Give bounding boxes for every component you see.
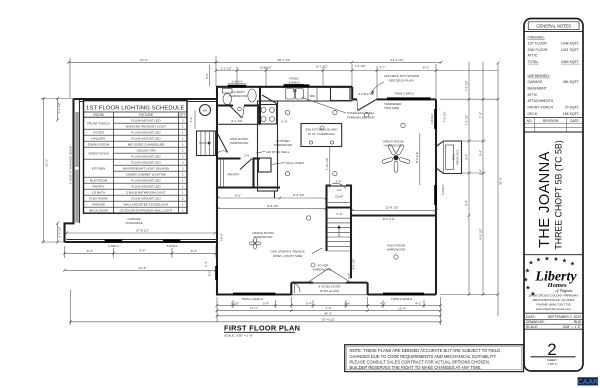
fireplace bump xyxy=(436,141,462,174)
top-left small rotated dim xyxy=(209,65,211,86)
svg-text:2ND FLOOR: 2ND FLOOR xyxy=(528,48,549,52)
svg-text:1: 1 xyxy=(182,136,184,140)
foyer door wall xyxy=(291,282,313,284)
house top wall A (kitchen/bath) xyxy=(216,86,352,88)
dim line garage top 21'-4" xyxy=(69,61,217,63)
svg-text:DINING ROOM: DINING ROOM xyxy=(88,142,110,146)
dim row2 left segments xyxy=(216,70,352,72)
svg-text:484 SQFT.: 484 SQFT. xyxy=(563,80,580,84)
corner cabinet diagonal xyxy=(262,95,278,104)
svg-text:21'-4 1/2": 21'-4 1/2" xyxy=(390,58,403,62)
svg-text:THIS SIDE: THIS SIDE xyxy=(384,106,399,110)
bath door swing xyxy=(230,106,242,118)
svg-text:2 BULB BATHROOM LIGHT: 2 BULB BATHROOM LIGHT xyxy=(126,190,165,194)
svg-text:GENERAL NOTES: GENERAL NOTES xyxy=(536,23,571,28)
svg-text:CONCRETE: CONCRETE xyxy=(125,221,142,225)
svg-text:1: 1 xyxy=(182,124,184,128)
svg-text:3'-0": 3'-0" xyxy=(335,180,341,184)
garage bottom wall xyxy=(65,241,218,243)
svg-text:- SEE DECK PLAN: - SEE DECK PLAN xyxy=(387,79,413,83)
porch door swing small xyxy=(295,284,301,294)
svg-text:1'-4": 1'-4" xyxy=(204,261,208,267)
svg-text:8'-1 1/2": 8'-1 1/2" xyxy=(231,119,242,123)
house bottom wall right segment xyxy=(368,293,436,295)
right wall window upper xyxy=(434,109,437,129)
bottom window TWIN left xyxy=(233,293,275,296)
svg-text:DECK: DECK xyxy=(528,112,538,116)
kitchen west cabinet column xyxy=(258,101,278,191)
svg-text:5'-4": 5'-4" xyxy=(464,200,468,206)
toilet xyxy=(223,89,233,94)
svg-text:FRONT PORCH: FRONT PORCH xyxy=(528,106,554,110)
svg-text:OAK STAIRS 5 TREADS: OAK STAIRS 5 TREADS xyxy=(270,250,304,254)
right dim line middle xyxy=(482,62,484,295)
svg-text:★: ★ xyxy=(525,268,531,275)
svg-text:2X4 DECK NOT SHOWN: 2X4 DECK NOT SHOWN xyxy=(384,74,419,78)
date row xyxy=(524,312,583,314)
svg-text:THREE CHOPT 5B (TC 5B): THREE CHOPT 5B (TC 5B) xyxy=(554,140,564,249)
svg-text:8'-0 C.G.: 8'-0 C.G. xyxy=(383,217,395,221)
flex room top wall xyxy=(351,214,436,216)
svg-text:9'-7": 9'-7" xyxy=(379,65,385,69)
svg-text:1'-1 1/2": 1'-1 1/2" xyxy=(57,102,61,113)
svg-text:GREAT ROOM: GREAT ROOM xyxy=(88,151,109,155)
coat closet xyxy=(327,186,332,208)
svg-text:3/16" = 1'-0": 3/16" = 1'-0" xyxy=(563,325,582,329)
svg-text:2: 2 xyxy=(547,340,556,359)
svg-text:HARDWOOD: HARDWOOD xyxy=(229,94,248,98)
garage bottom windows xyxy=(105,240,123,243)
svg-text:2: 2 xyxy=(182,166,184,170)
svg-text:CAAR: CAAR xyxy=(577,377,599,386)
kitchen ceiling lights xyxy=(285,110,289,114)
basement steps xyxy=(197,131,216,156)
svg-text:GARAGE: GARAGE xyxy=(92,202,105,206)
stairs xyxy=(325,208,327,252)
svg-text:FLEX ROOM: FLEX ROOM xyxy=(89,196,108,200)
svg-text:1: 1 xyxy=(182,130,184,134)
table data rows xyxy=(84,118,188,212)
svg-text:8'-8 1/2": 8'-8 1/2" xyxy=(293,193,304,197)
title block outer border xyxy=(524,19,583,372)
svg-text:2: 2 xyxy=(182,118,184,122)
table frame xyxy=(84,101,188,214)
farmhouse sink xyxy=(286,89,295,100)
dim line house top 28'-7 1/2" xyxy=(216,61,352,63)
svg-text:HARDWOOD: HARDWOOD xyxy=(274,143,293,147)
svg-text:6'-4": 6'-4" xyxy=(87,249,93,253)
svg-text:DATE: DATE xyxy=(570,119,578,123)
svg-text:★: ★ xyxy=(562,258,568,265)
dim line garage left inner segments xyxy=(57,99,59,121)
svg-text:SCALE: 3/16" = 1'-0": SCALE: 3/16" = 1'-0" xyxy=(224,334,253,338)
bottom window TWIN right xyxy=(383,293,424,296)
garage bottom dim row 6'-4 / 9'-4 / 6'-4 xyxy=(65,252,217,254)
svg-text:8'-8 1/2": 8'-8 1/2" xyxy=(260,65,271,69)
svg-text:3-046-0: 3-046-0 xyxy=(108,244,119,248)
svg-text:3-046-0: 3-046-0 xyxy=(167,244,178,248)
svg-text:FINISHED:: FINISHED: xyxy=(528,35,545,39)
svg-text:ROOM: ROOM xyxy=(93,113,104,117)
svg-text:2- 9'X7'-0" GARAGE DOOR: 2- 9'X7'-0" GARAGE DOOR xyxy=(69,145,73,184)
svg-text:WALL MOUNTED FLOODLIGHT: WALL MOUNTED FLOODLIGHT xyxy=(123,202,168,206)
svg-text:CHANGES DUE TO CODE REQUIREMEN: CHANGES DUE TO CODE REQUIREMENTS AND MEC… xyxy=(350,354,497,359)
svg-text:KITCHEN: KITCHEN xyxy=(92,166,106,170)
svg-text:4'-1": 4'-1" xyxy=(415,302,421,306)
svg-text:1: 1 xyxy=(182,142,184,146)
svg-text:1: 1 xyxy=(182,148,184,152)
great room lights xyxy=(364,113,368,117)
pantry door swing xyxy=(240,159,252,170)
house left wall window (lower) xyxy=(215,266,218,280)
bottom dim row A xyxy=(217,304,441,306)
svg-text:THE JOANNA: THE JOANNA xyxy=(537,151,553,248)
house bottom wall left segment xyxy=(216,293,291,295)
svg-text:7'-3 1/2": 7'-3 1/2" xyxy=(464,80,468,91)
svg-text:2'-3 1/2": 2'-3 1/2" xyxy=(220,66,231,70)
svg-text:NOTE: THESE PLANS ARE DEEMED A: NOTE: THESE PLANS ARE DEEMED ACCURATE BU… xyxy=(350,348,501,353)
svg-text:FIXTURE: FIXTURE xyxy=(139,113,154,117)
svg-text:27'-8 1/2": 27'-8 1/2" xyxy=(136,229,149,233)
garage left wall outer xyxy=(65,99,74,242)
svg-text:6'-2": 6'-2" xyxy=(423,65,429,69)
svg-text:DRAWN BY:: DRAWN BY: xyxy=(526,320,545,324)
svg-text:FLUSH MOUNT LED: FLUSH MOUNT LED xyxy=(131,196,161,200)
svg-text:4'-0": 4'-0" xyxy=(205,73,209,79)
svg-text:10430 CROSS COLONY PARKWAY: 10430 CROSS COLONY PARKWAY xyxy=(528,294,578,298)
pantry east wall xyxy=(252,159,254,188)
svg-text:5'-10": 5'-10" xyxy=(231,301,239,305)
svg-text:UNDER CABINET LIGHTING: UNDER CABINET LIGHTING xyxy=(126,172,167,176)
svg-text:OPEN - RIGHT SIDE: OPEN - RIGHT SIDE xyxy=(273,254,302,258)
foyer recess west wall xyxy=(290,283,292,295)
svg-text:8'-0 C.G.: 8'-0 C.G. xyxy=(415,151,419,163)
cabinet dividers xyxy=(316,88,318,101)
svg-text:1/2 BATH: 1/2 BATH xyxy=(92,190,105,194)
foyer recess east wall xyxy=(367,283,369,295)
general notes header box xyxy=(528,22,579,30)
pantry shelves xyxy=(220,160,222,188)
svg-text:7'-3 1/2": 7'-3 1/2" xyxy=(464,114,468,125)
kitchen-coat dim line 7'-10 1/2" xyxy=(329,147,331,188)
svg-text:GARAGE: GARAGE xyxy=(528,80,544,84)
kitchen top counter edge xyxy=(260,99,352,101)
svg-text:5'-4": 5'-4" xyxy=(306,302,312,306)
svg-text:BASEMENT: BASEMENT xyxy=(528,87,548,91)
svg-text:SCALE:: SCALE: xyxy=(526,325,538,329)
svg-text:1: 1 xyxy=(182,208,184,212)
half bath bottom wall xyxy=(217,104,233,106)
svg-text:7'-3 1/2": 7'-3 1/2" xyxy=(443,111,447,122)
svg-text:FLUSH MOUNT LED: FLUSH MOUNT LED xyxy=(131,130,161,134)
svg-text:7'-10 1/2": 7'-10 1/2" xyxy=(325,157,329,170)
svg-text:HARDWOOD: HARDWOOD xyxy=(387,248,406,252)
svg-text:FARMHOUSE SINK: FARMHOUSE SINK xyxy=(347,115,376,119)
window TWIN 2-846-2 xyxy=(387,97,431,100)
svg-text:FLUSH MOUNT LED: FLUSH MOUNT LED xyxy=(131,136,161,140)
svg-text:www.libertyhomesva.com: www.libertyhomesva.com xyxy=(536,307,571,311)
dim line garage left 21'-0" xyxy=(43,99,45,243)
svg-text:9'-4": 9'-4" xyxy=(139,249,145,253)
back door swing xyxy=(358,99,377,110)
bath sink xyxy=(248,89,256,102)
svg-text:70 SQFT.: 70 SQFT. xyxy=(565,106,580,110)
dimension tick marks xyxy=(42,61,499,323)
svg-text:★: ★ xyxy=(553,256,559,263)
svg-text:FRONT PORCH: FRONT PORCH xyxy=(87,121,110,125)
svg-text:1: 1 xyxy=(182,172,184,176)
garage interior width dim 27'-8 1/2" xyxy=(67,232,216,234)
svg-text:QTY: QTY xyxy=(179,113,187,117)
svg-text:8'-6": 8'-6" xyxy=(235,193,241,197)
svg-text:DATE:: DATE: xyxy=(526,315,536,319)
window FIXED 4-046-0 xyxy=(284,84,310,87)
svg-text:1: 1 xyxy=(182,202,184,206)
svg-text:1: 1 xyxy=(182,178,184,182)
svg-text:TWIN 2-2046-0: TWIN 2-2046-0 xyxy=(241,297,262,301)
svg-text:1-843-0: 1-843-0 xyxy=(232,80,243,84)
svg-text:TOTAL: TOTAL xyxy=(528,60,539,64)
svg-text:2-4: 2-4 xyxy=(337,188,342,192)
kitchen island xyxy=(301,124,342,147)
svg-text:★: ★ xyxy=(570,261,576,268)
svg-text:3: 3 xyxy=(182,160,184,164)
svg-text:57'-4 1/2": 57'-4 1/2" xyxy=(322,317,335,321)
svg-text:7'-0": 7'-0" xyxy=(325,306,331,310)
svg-text:3'-4": 3'-4" xyxy=(464,154,468,160)
svg-text:15'-6": 15'-6" xyxy=(220,233,224,241)
svg-text:W 3/4 GLASS: W 3/4 GLASS xyxy=(320,289,339,293)
svg-text:ATTACHMENTS: ATTACHMENTS xyxy=(528,99,554,103)
svg-text:HARDWOOD: HARDWOOD xyxy=(254,235,273,239)
pantry bottom wall xyxy=(217,186,280,188)
svg-text:34'-0": 34'-0" xyxy=(324,312,332,316)
stove xyxy=(259,105,277,125)
svg-text:TWIN 2-2046-0: TWIN 2-2046-0 xyxy=(391,297,412,301)
svg-text:MID SIZED CHANDELIER: MID SIZED CHANDELIER xyxy=(128,142,165,146)
svg-text:PLEASE CONSULT SALES CONTRACT: PLEASE CONSULT SALES CONTRACT FOR ACTUAL… xyxy=(350,359,490,364)
svg-text:FLUSH MOUNT LED: FLUSH MOUNT LED xyxy=(131,184,161,188)
svg-text:CEILING FAN: CEILING FAN xyxy=(136,148,155,152)
svg-text:4'-0": 4'-0" xyxy=(189,116,193,122)
svg-text:ATTIC: ATTIC xyxy=(528,93,538,97)
right dim line inner xyxy=(468,62,470,295)
house right wall xyxy=(435,99,437,294)
svg-text:DW: DW xyxy=(310,94,315,98)
svg-text:21'-0": 21'-0" xyxy=(45,159,49,167)
stairs up arrow xyxy=(338,226,340,237)
half bath east wall xyxy=(259,87,261,125)
svg-text:22'-8": 22'-8" xyxy=(139,266,147,270)
svg-text:TWIN 2-846-2: TWIN 2-846-2 xyxy=(394,92,414,96)
svg-text:PANTRY: PANTRY xyxy=(92,184,104,188)
svg-text:FLUSH MOUNT LED: FLUSH MOUNT LED xyxy=(131,178,161,182)
svg-text:2'-2": 2'-2" xyxy=(336,212,342,216)
svg-text:9'-6 1/2": 9'-6 1/2" xyxy=(478,228,482,239)
svg-text:5'-0": 5'-0" xyxy=(208,270,212,276)
svg-text:★: ★ xyxy=(536,257,542,264)
svg-text:7'-3": 7'-3" xyxy=(478,112,482,118)
garage door panel band xyxy=(75,112,78,167)
svg-text:32'-0": 32'-0" xyxy=(499,177,503,185)
svg-text:3'-4": 3'-4" xyxy=(478,150,482,156)
dim row2 right segments xyxy=(352,70,498,72)
dim line great room top 21'-4 1/2" xyxy=(352,61,441,63)
top step wall xyxy=(351,87,353,100)
svg-text:SEPTEMBER 2, 2020: SEPTEMBER 2, 2020 xyxy=(548,315,581,319)
svg-text:2'-3 1/2": 2'-3 1/2" xyxy=(58,226,62,237)
svg-text:★: ★ xyxy=(528,260,534,267)
svg-text:NO.: NO. xyxy=(527,119,533,123)
svg-text:M/A: M/A xyxy=(203,109,208,113)
svg-text:MUD ROOM: MUD ROOM xyxy=(90,178,108,182)
svg-text:WALL OVEN: WALL OVEN xyxy=(286,161,304,165)
svg-text:12'-4": 12'-4" xyxy=(398,306,406,310)
svg-text:2-4: 2-4 xyxy=(244,154,249,158)
svg-text:1048 SQFT.: 1048 SQFT. xyxy=(561,42,580,46)
svg-text:1-846-0: 1-846-0 xyxy=(430,113,434,124)
svg-text:OUTDOOR ENTRANCE WALL LIGHT: OUTDOOR ENTRANCE WALL LIGHT xyxy=(120,208,173,212)
revision table xyxy=(524,117,583,119)
svg-text:FOYER: FOYER xyxy=(93,130,104,134)
svg-text:of Virginia: of Virginia xyxy=(556,288,573,293)
svg-text:HANGING PENDANT LIGHT: HANGING PENDANT LIGHT xyxy=(126,124,166,128)
svg-text:PANTRY: PANTRY xyxy=(227,173,239,177)
svg-text:1ST FLOOR: 1ST FLOOR xyxy=(528,42,548,46)
svg-text:2: 2 xyxy=(182,196,184,200)
svg-text:HALLWAY: HALLWAY xyxy=(91,136,105,140)
svg-text:1-846-0: 1-846-0 xyxy=(441,184,445,195)
svg-text:COAT: COAT xyxy=(335,195,343,199)
svg-text:ATTIC: ATTIC xyxy=(528,54,538,58)
smoke detector circle M/A xyxy=(200,105,211,116)
svg-text:★: ★ xyxy=(523,277,529,284)
svg-text:21'-4": 21'-4" xyxy=(140,58,148,62)
garage left wall inner line xyxy=(79,100,81,223)
right wall window lower xyxy=(434,185,437,205)
svg-text:17'-1": 17'-1" xyxy=(250,306,258,310)
svg-text:2: 2 xyxy=(182,154,184,158)
svg-text:MINI PENDANT LIGHT (ISLAND): MINI PENDANT LIGHT (ISLAND) xyxy=(123,166,169,170)
svg-text:2-2 B-LITE: 2-2 B-LITE xyxy=(359,92,374,96)
svg-text:6'-4": 6'-4" xyxy=(191,249,197,253)
svg-text:BUILDER RESERVES THE RIGHT TO: BUILDER RESERVES THE RIGHT TO MAKE CHANG… xyxy=(350,365,482,370)
house left wall xyxy=(216,87,218,295)
svg-text:HARDWOOD: HARDWOOD xyxy=(230,141,249,145)
porch gable outline xyxy=(303,269,356,283)
house top wall B (great room) xyxy=(352,98,357,100)
hall/pantry divider wall xyxy=(217,157,241,159)
svg-text:RLW: RLW xyxy=(574,320,582,324)
svg-text:2x6 STUD WALL: 2x6 STUD WALL xyxy=(266,150,290,154)
svg-text:4'-1": 4'-1" xyxy=(380,302,386,306)
svg-text:UNFINISHED:: UNFINISHED: xyxy=(528,74,550,78)
svg-text:28'-7 1/2": 28'-7 1/2" xyxy=(277,58,290,62)
svg-text:1ST FLOOR LIGHTING SCHEDULE: 1ST FLOOR LIGHTING SCHEDULE xyxy=(86,105,185,111)
garage top wall xyxy=(74,98,217,100)
svg-text:BACK DOOR: BACK DOOR xyxy=(89,208,108,212)
svg-text:3X6 KITCHEN ISLAND: 3X6 KITCHEN ISLAND xyxy=(306,128,339,132)
mud room door swing xyxy=(218,135,228,153)
svg-text:1: 1 xyxy=(182,184,184,188)
coat closet door swing arc xyxy=(333,183,347,188)
kitchen south stud wall stub xyxy=(274,191,276,198)
bottom dim row D overall xyxy=(70,321,440,323)
svg-text:5'-9": 5'-9" xyxy=(263,301,269,305)
bottom dim row B xyxy=(217,310,441,312)
svg-text:FLUSH MOUNT LED: FLUSH MOUNT LED xyxy=(131,160,161,164)
svg-text:1 OF 5: 1 OF 5 xyxy=(547,362,557,366)
svg-text:9'-8 1/2": 9'-8 1/2" xyxy=(267,204,278,208)
svg-text:12'-8 1/2": 12'-8 1/2" xyxy=(385,206,398,210)
svg-text:4-046-0: 4-046-0 xyxy=(289,80,300,84)
bottom dim row C 34'-0" xyxy=(217,315,441,317)
wall oven box xyxy=(259,158,272,172)
garage bottom dim row 22'-8 xyxy=(65,269,217,271)
svg-text:W 12" OVERHANG: W 12" OVERHANG xyxy=(308,132,335,136)
svg-text:MECHANICSVILLE, VA 23116: MECHANICSVILLE, VA 23116 xyxy=(533,298,575,302)
svg-text:FLUSH MOUNT LED: FLUSH MOUNT LED xyxy=(131,154,161,158)
column dividers xyxy=(113,112,115,213)
svg-text:6'-6": 6'-6" xyxy=(281,120,287,124)
svg-text:168 SQFT.: 168 SQFT. xyxy=(563,112,580,116)
svg-text:FIREPLACE: FIREPLACE xyxy=(455,149,459,165)
svg-text:FLUSH MOUNT LED: FLUSH MOUNT LED xyxy=(131,118,161,122)
basement stair dim xyxy=(194,110,196,129)
great room ceiling fan xyxy=(382,144,411,172)
dining chandelier symbol xyxy=(254,238,257,244)
logo stars xyxy=(523,255,575,297)
svg-text:1421 SQFT.: 1421 SQFT. xyxy=(561,48,580,52)
svg-text:2469 SQFT.: 2469 SQFT. xyxy=(561,60,580,64)
svg-text:1: 1 xyxy=(182,190,184,194)
svg-text:REVISION: REVISION xyxy=(543,119,559,123)
svg-text:3'-4": 3'-4" xyxy=(344,302,350,306)
great room interior dim line xyxy=(419,133,421,185)
svg-text:7'-4 1/2": 7'-4 1/2" xyxy=(354,64,365,68)
window 1-843-0 xyxy=(228,85,247,88)
svg-text:★: ★ xyxy=(544,255,550,262)
svg-text:8'-7 1/2": 8'-7 1/2" xyxy=(316,65,327,69)
svg-text:FIRST FLOOR PLAN: FIRST FLOOR PLAN xyxy=(224,324,300,333)
coat closet shelf line xyxy=(328,201,350,203)
svg-text:HARDWOOD: HARDWOOD xyxy=(313,268,332,272)
porch floor edge xyxy=(291,294,367,296)
